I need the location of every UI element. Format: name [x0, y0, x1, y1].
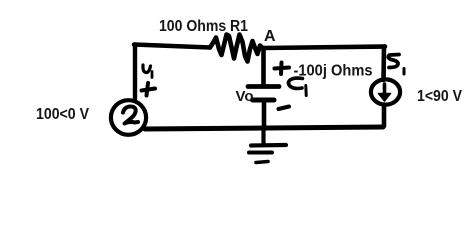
label C1 (handwritten)	[288, 78, 302, 88]
wire top-right segment	[263, 47, 385, 49]
svg-text:100 Ohms R1: 100 Ohms R1	[159, 18, 248, 35]
voltage source squiggle "2"	[123, 107, 138, 124]
label S1 (handwritten)	[388, 55, 399, 68]
polarity + of C1	[275, 63, 290, 75]
ground bar 3	[256, 162, 268, 163]
ground bar 1	[251, 143, 286, 148]
svg-text:Vo: Vo	[236, 88, 254, 105]
svg-text:A: A	[264, 28, 276, 45]
wire source-to-bottom stub	[382, 105, 387, 127]
polarity - of C1	[279, 107, 290, 110]
wire capacitor branch upper	[261, 48, 266, 84]
resistor R1	[210, 35, 263, 62]
wire bottom	[145, 127, 383, 129]
ground stub	[261, 130, 265, 143]
label v1 (handwritten)	[143, 65, 151, 73]
svg-text:100<0 V: 100<0 V	[36, 106, 89, 123]
svg-text:1<90 V: 1<90 V	[417, 88, 462, 105]
polarity + of V1	[142, 83, 156, 96]
current source S1	[371, 79, 400, 104]
capacitor C1 bottom plate	[253, 98, 275, 103]
current source arrow	[383, 84, 387, 95]
current source arrow head	[379, 94, 391, 102]
svg-text:-100j Ohms: -100j Ohms	[294, 63, 373, 80]
wire top-left segment	[134, 45, 210, 48]
capacitor C1 top plate	[248, 84, 279, 89]
wire right vertical	[381, 47, 386, 81]
voltage source V1	[111, 100, 146, 135]
wire capacitor branch lower	[262, 100, 267, 127]
ground bar 2	[249, 151, 272, 155]
wire left vertical	[133, 45, 137, 101]
